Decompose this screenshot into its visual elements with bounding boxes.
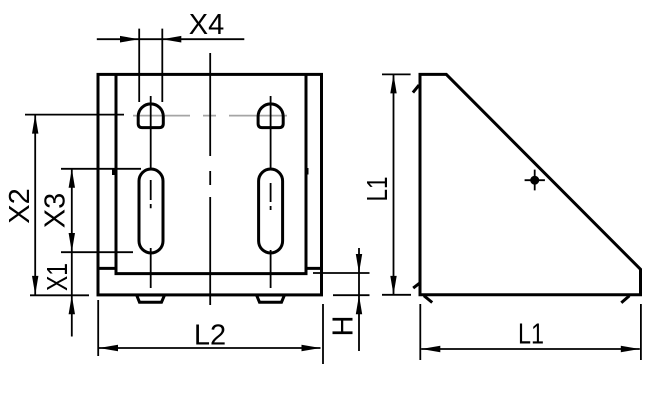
- svg-text:L2: L2: [194, 319, 226, 351]
- svg-text:L1: L1: [362, 177, 394, 202]
- svg-text:X3: X3: [39, 193, 71, 228]
- svg-text:X2: X2: [4, 188, 36, 223]
- svg-text:H: H: [328, 316, 360, 337]
- svg-text:X1: X1: [42, 263, 74, 291]
- svg-text:X4: X4: [189, 9, 224, 41]
- svg-text:L1: L1: [518, 319, 544, 351]
